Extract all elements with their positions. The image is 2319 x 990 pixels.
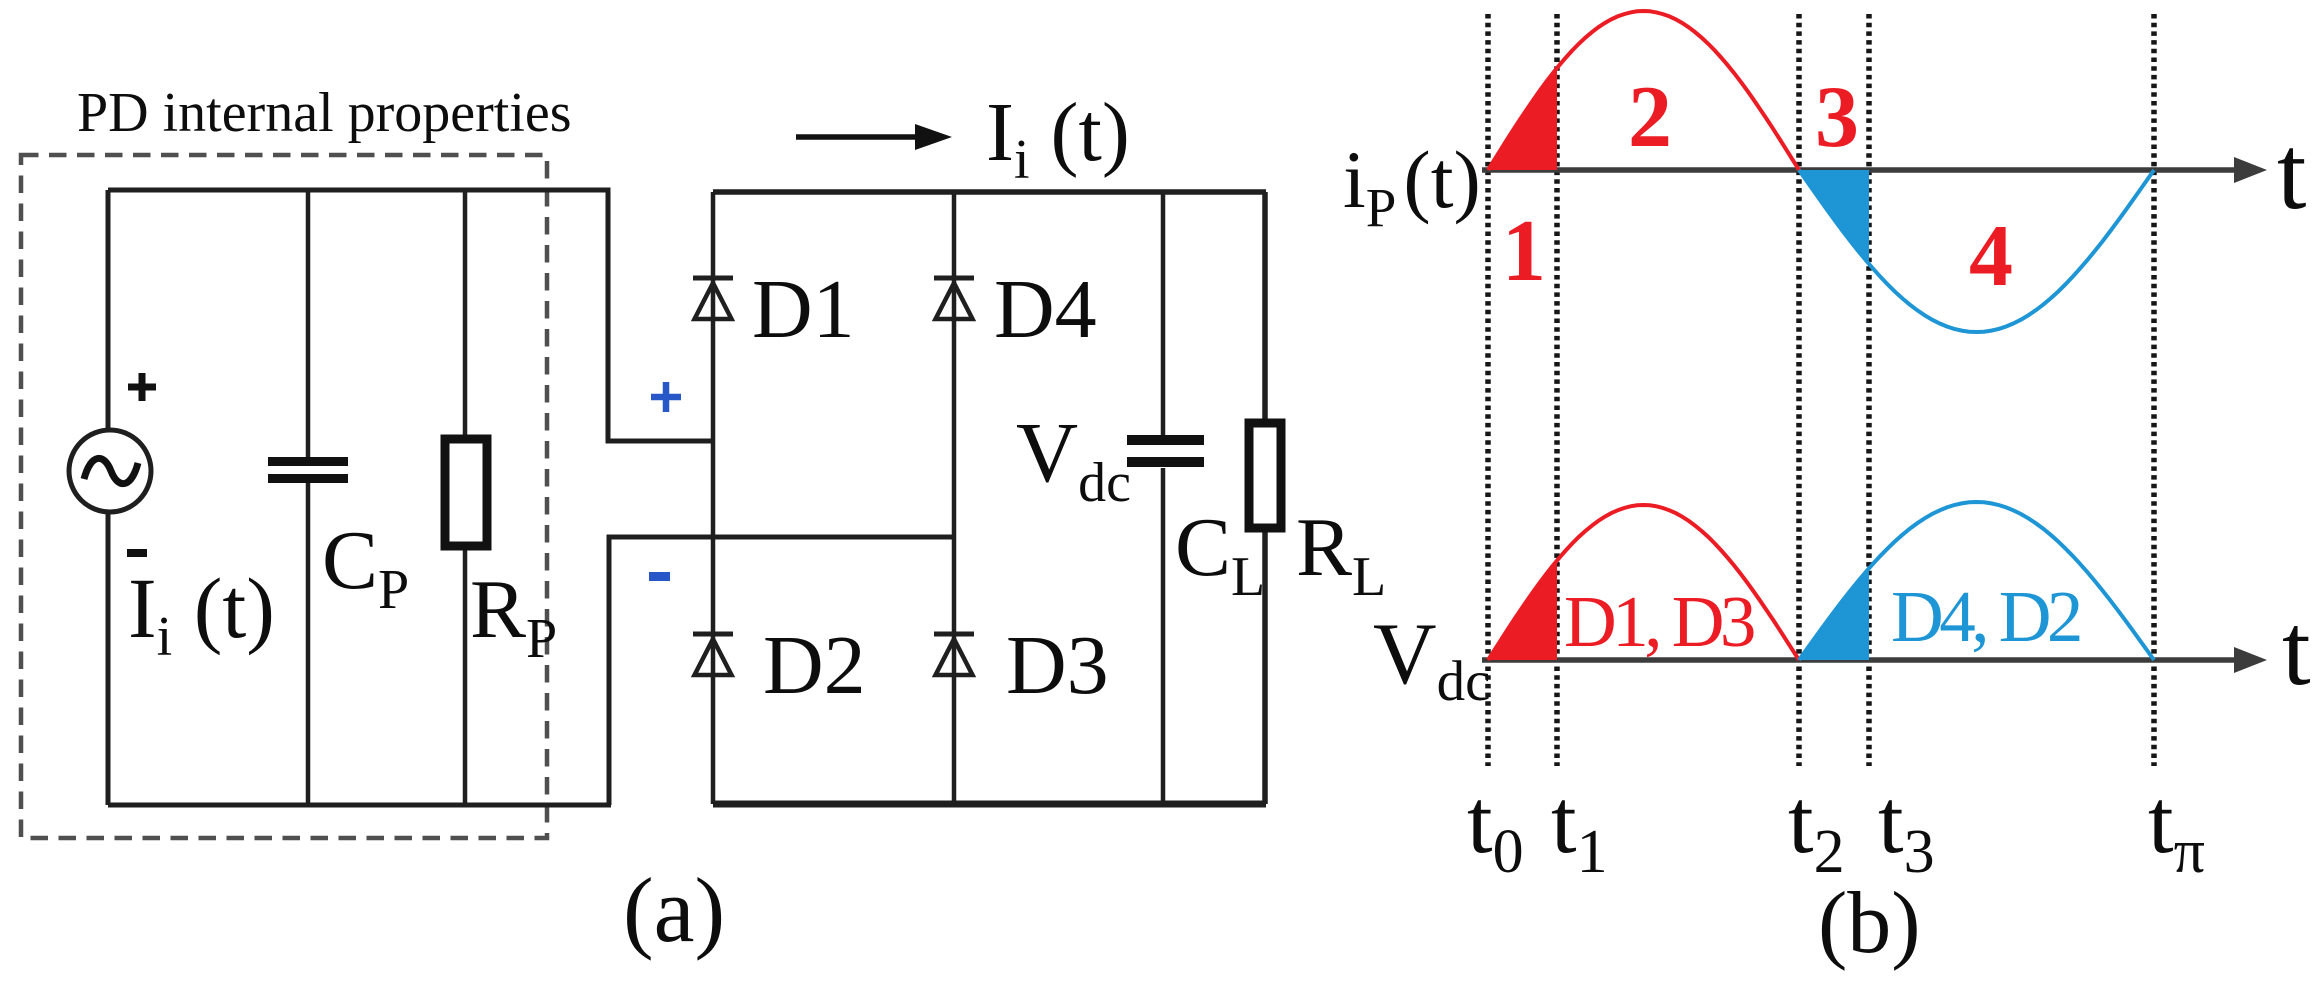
svg-text:(a): (a)	[623, 859, 725, 961]
svg-text:1: 1	[1502, 203, 1546, 300]
svg-text:Vdc: Vdc	[1373, 606, 1490, 713]
svg-text:D4: D4	[994, 263, 1097, 356]
svg-text:Ii (t): Ii (t)	[986, 86, 1130, 191]
svg-text:t: t	[2277, 114, 2306, 231]
svg-text:t: t	[2282, 593, 2311, 707]
svg-text:2: 2	[1628, 69, 1672, 166]
svg-text:D2: D2	[763, 619, 866, 712]
svg-text:t2: t2	[1788, 770, 1845, 886]
svg-text:tπ: tπ	[2148, 770, 2205, 886]
svg-text:Vdc: Vdc	[1016, 404, 1131, 514]
svg-text:PD internal properties: PD internal properties	[77, 82, 572, 144]
svg-text:Ii (t): Ii (t)	[128, 560, 275, 668]
svg-text:iP(t): iP(t)	[1343, 134, 1481, 238]
svg-text:D3: D3	[1006, 619, 1109, 712]
svg-text:RP: RP	[470, 563, 557, 670]
svg-text:(b): (b)	[1818, 875, 1921, 972]
svg-text:t3: t3	[1878, 770, 1935, 886]
svg-text:D4, D2: D4, D2	[1891, 576, 2080, 657]
svg-text:D1: D1	[752, 263, 855, 356]
svg-text:RL: RL	[1296, 501, 1386, 608]
svg-text:D1, D3: D1, D3	[1564, 581, 1754, 662]
svg-text:t1: t1	[1551, 770, 1608, 886]
svg-text:t0: t0	[1467, 770, 1524, 886]
svg-text:CP: CP	[322, 514, 409, 621]
svg-text:4: 4	[1969, 208, 2013, 305]
svg-text:3: 3	[1815, 69, 1859, 166]
